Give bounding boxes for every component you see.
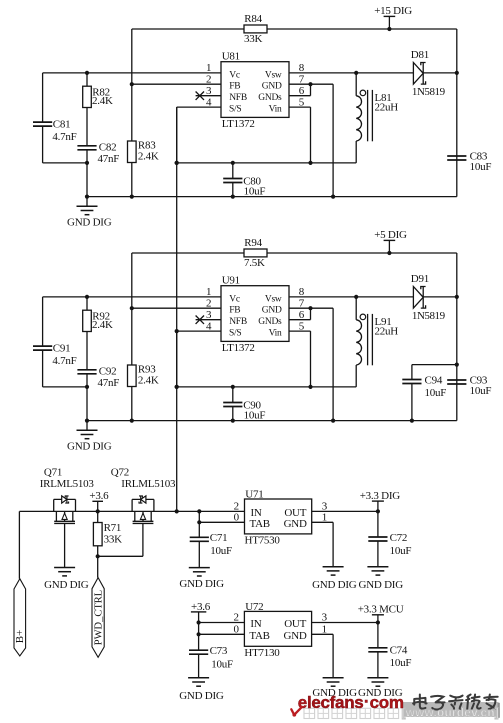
power +3.3 DIG (312, 490, 401, 513)
ground GND DIG (67, 197, 112, 229)
svg-text:C73: C73 (210, 645, 228, 657)
diode D81 1N5819 (411, 49, 459, 98)
ground Q71 gate GND DIG (44, 523, 89, 591)
svg-text:2: 2 (206, 297, 211, 309)
svg-text:GND DIG: GND DIG (44, 579, 89, 591)
transistor Q71 IRLML5103 (40, 466, 95, 523)
wire pin2 FB (132, 307, 221, 309)
svg-text:GND DIG: GND DIG (179, 690, 224, 702)
svg-text:U81: U81 (222, 50, 240, 62)
svg-text:GND DIG: GND DIG (359, 579, 404, 591)
svg-text:GND DIG: GND DIG (67, 440, 112, 452)
power +15 (374, 5, 412, 31)
svg-text:10uF: 10uF (390, 545, 412, 557)
pin numbers 1-4 (206, 286, 212, 332)
watermark gray panel (403, 702, 500, 718)
resistor R83 (128, 139, 159, 196)
svg-text:GND DIG: GND DIG (67, 216, 112, 228)
svg-text:D91: D91 (411, 273, 429, 285)
svg-text:R71: R71 (104, 522, 122, 534)
svg-text:C71: C71 (210, 532, 228, 544)
power +3.6 node (89, 490, 109, 514)
capacitor C71 (179, 509, 232, 590)
svg-text:10uF: 10uF (244, 410, 266, 422)
wire pin4 S/S (177, 330, 221, 332)
wire ground rail (85, 419, 457, 423)
svg-text:U91: U91 (222, 274, 240, 286)
power +3.3 MCU (312, 604, 404, 625)
wire pin8 Vsw (289, 71, 413, 75)
svg-text:LT1372: LT1372 (222, 118, 255, 130)
wire pin5 Vin (289, 107, 313, 165)
capacitor C72 (367, 511, 411, 575)
svg-text:U71: U71 (245, 489, 263, 501)
svg-text:+15 DIG: +15 DIG (374, 5, 412, 17)
wire bottom of C loop (43, 385, 90, 421)
svg-text:Vsw: Vsw (265, 70, 282, 80)
svg-text:GND: GND (262, 82, 282, 92)
svg-text:IRLML5103: IRLML5103 (121, 478, 176, 490)
wire pin7 GND (289, 84, 335, 199)
capacitor C73 (179, 634, 233, 702)
transistor Q72 IRLML5103 (111, 466, 176, 523)
diode D91 1N5819 (411, 273, 459, 322)
svg-text:1: 1 (206, 62, 211, 74)
svg-text:10uF: 10uF (210, 545, 232, 557)
svg-text:22uH: 22uH (375, 102, 399, 114)
capacitor C94 (402, 363, 459, 423)
connector B+ (14, 511, 26, 656)
svg-text:TAB: TAB (249, 630, 269, 642)
svg-text:33K: 33K (104, 533, 123, 545)
capacitor C81 (33, 73, 77, 163)
capacitor C92 (77, 332, 119, 389)
svg-text:4.7nF: 4.7nF (52, 355, 76, 367)
wire R71 to Q72 gate (98, 523, 143, 556)
pin numbers 1-4 (206, 62, 212, 108)
svg-text:C91: C91 (53, 342, 71, 354)
ground U72 GND pin (312, 634, 403, 699)
svg-text:GND: GND (284, 630, 307, 642)
svg-text:2: 2 (206, 73, 211, 85)
watermark text zhongguo outline row (304, 706, 499, 720)
op-amp U91 LT1372 (221, 274, 289, 354)
pin numbers 8-5 (299, 62, 305, 108)
wire U72 TAB (199, 633, 245, 635)
svg-text:C94: C94 (425, 375, 443, 387)
svg-text:0: 0 (234, 512, 240, 524)
op-amp U72 HT7130 (234, 601, 328, 659)
op-amp U71 HT7530 (234, 489, 328, 547)
svg-text:47nF: 47nF (98, 153, 120, 165)
wire U72 IN (199, 622, 245, 624)
svg-text:2: 2 (234, 612, 239, 624)
svg-text:4.7nF: 4.7nF (52, 131, 76, 143)
svg-text:GND DIG: GND DIG (179, 578, 224, 590)
wire pin5 Vin (289, 331, 313, 389)
svg-text:10uF: 10uF (470, 161, 492, 173)
capacitor C74 (367, 623, 411, 687)
svg-text:2.4K: 2.4K (92, 319, 113, 331)
svg-text:U72: U72 (245, 601, 263, 613)
wire pin8 Vsw (289, 295, 413, 299)
svg-text:2.4K: 2.4K (92, 95, 113, 107)
connector PWD_CTRL (92, 556, 105, 657)
no-connect X pin3 NFB (196, 316, 221, 324)
svg-text:PWD_CTRL: PWD_CTRL (94, 590, 105, 645)
no-connect X pin3 NFB (196, 92, 221, 100)
svg-text:22uH: 22uH (375, 326, 399, 338)
svg-text:FB: FB (229, 306, 240, 316)
svg-text:LT1372: LT1372 (222, 342, 255, 354)
svg-text:Vc: Vc (229, 70, 240, 80)
wire bottom of C loop (43, 161, 90, 197)
wire pin1 Vc (43, 71, 221, 75)
wire left drop to FB divider (130, 253, 134, 365)
svg-text:1N5819: 1N5819 (412, 310, 446, 322)
wire pin2 FB (132, 83, 221, 85)
svg-text:GNDs: GNDs (258, 93, 282, 103)
svg-text:C74: C74 (390, 644, 408, 656)
wire S/S vertical (175, 107, 179, 165)
resistor R92 (83, 297, 113, 332)
svg-text:7.5K: 7.5K (244, 257, 265, 269)
power +3.6 U72 (191, 601, 211, 636)
svg-text:47nF: 47nF (98, 377, 120, 389)
ground GND DIG (67, 421, 112, 453)
svg-text:+3.6: +3.6 (89, 490, 109, 502)
capacitor C82 (77, 108, 119, 165)
svg-text:2.4K: 2.4K (138, 150, 159, 162)
svg-text:C72: C72 (390, 532, 408, 544)
svg-text:NFB: NFB (229, 317, 247, 327)
wire S/S vertical (175, 331, 179, 389)
wire pin6 GNDs (289, 82, 313, 96)
resistor R93 (128, 363, 159, 420)
svg-text:HT7130: HT7130 (244, 647, 280, 659)
ground U71 GND pin (312, 522, 403, 591)
svg-text:B+: B+ (14, 630, 26, 644)
svg-text:2.4K: 2.4K (138, 374, 159, 386)
capacitor C93 (447, 374, 491, 397)
watermark text dianzifashaoyou (413, 695, 498, 711)
wire lower horizontal (177, 162, 357, 164)
wire top rail +15 net (132, 28, 457, 30)
svg-text:S/S: S/S (229, 105, 241, 115)
svg-text:R94: R94 (244, 237, 262, 249)
capacitor C80 (223, 161, 265, 199)
resistor R84 (244, 13, 267, 45)
svg-text:0: 0 (234, 624, 240, 636)
svg-text:1N5819: 1N5819 (412, 86, 446, 98)
svg-text:[www.ourdev.cn]: [www.ourdev.cn] (402, 706, 499, 720)
svg-text:GNDs: GNDs (258, 317, 282, 327)
svg-text:R84: R84 (244, 13, 262, 25)
svg-text:Vsw: Vsw (265, 294, 282, 304)
capacitor C83 (447, 150, 491, 173)
inductor L81 (356, 73, 398, 163)
svg-text:S/S: S/S (229, 329, 241, 339)
wire pin4 S/S (177, 106, 221, 108)
resistor R71 33K (93, 511, 122, 558)
wire S/S net long vertical (175, 107, 179, 511)
power +5 (374, 229, 407, 255)
svg-text:Vc: Vc (229, 294, 240, 304)
svg-text:TAB: TAB (250, 518, 270, 530)
wire TAB U71 (199, 521, 244, 523)
svg-text:GND: GND (284, 518, 307, 530)
wire main B+ rail (19, 510, 244, 512)
svg-text:10uF: 10uF (470, 385, 492, 397)
wire ground rail (85, 195, 457, 199)
svg-text:Vin: Vin (269, 105, 282, 115)
svg-text:IRLML5103: IRLML5103 (40, 478, 95, 490)
svg-text:C82: C82 (99, 142, 117, 154)
wire top rail +5 net (132, 252, 457, 254)
svg-text:D81: D81 (411, 49, 429, 61)
watermark logo elecfans.com (291, 692, 404, 717)
svg-text:1: 1 (206, 286, 211, 298)
pin numbers 8-5 (299, 286, 305, 332)
capacitor C91 (33, 297, 77, 387)
svg-text:33K: 33K (244, 33, 263, 45)
svg-text:GND DIG: GND DIG (312, 579, 357, 591)
wire pin6 GNDs (289, 306, 313, 320)
svg-text:C92: C92 (99, 366, 117, 378)
op-amp U81 LT1372 (221, 50, 289, 130)
svg-text:+5 DIG: +5 DIG (374, 229, 407, 241)
capacitor C90 (223, 385, 265, 423)
svg-text:10uF: 10uF (425, 387, 447, 399)
svg-text:10uF: 10uF (211, 658, 233, 670)
svg-text:+3.3 DIG: +3.3 DIG (360, 490, 401, 502)
wire pin7 GND (289, 308, 335, 423)
svg-text:HT7530: HT7530 (245, 534, 281, 546)
svg-text:OUT: OUT (284, 618, 306, 630)
wire right vertical output (456, 29, 458, 197)
svg-text:IN: IN (250, 618, 261, 630)
svg-text:Q72: Q72 (111, 466, 129, 478)
resistor R94 (244, 237, 267, 269)
svg-text:elecfans·com: elecfans·com (298, 692, 404, 712)
wire lower horizontal (177, 386, 357, 388)
svg-text:FB: FB (229, 82, 240, 92)
svg-text:NFB: NFB (229, 93, 247, 103)
svg-text:Vin: Vin (269, 329, 282, 339)
wire left drop to FB divider (130, 29, 134, 141)
node S/S rail joins switched rail (175, 509, 179, 513)
svg-text:+3.3 MCU: +3.3 MCU (358, 604, 404, 616)
svg-text:10uF: 10uF (244, 186, 266, 198)
svg-text:Q71: Q71 (44, 466, 62, 478)
svg-text:GND: GND (262, 306, 282, 316)
resistor R82 (83, 73, 113, 108)
svg-text:C81: C81 (53, 118, 71, 130)
wire pin1 Vc (43, 295, 221, 299)
inductor L91 (356, 297, 398, 387)
wire right vertical output (456, 253, 458, 421)
svg-text:10uF: 10uF (390, 657, 412, 669)
